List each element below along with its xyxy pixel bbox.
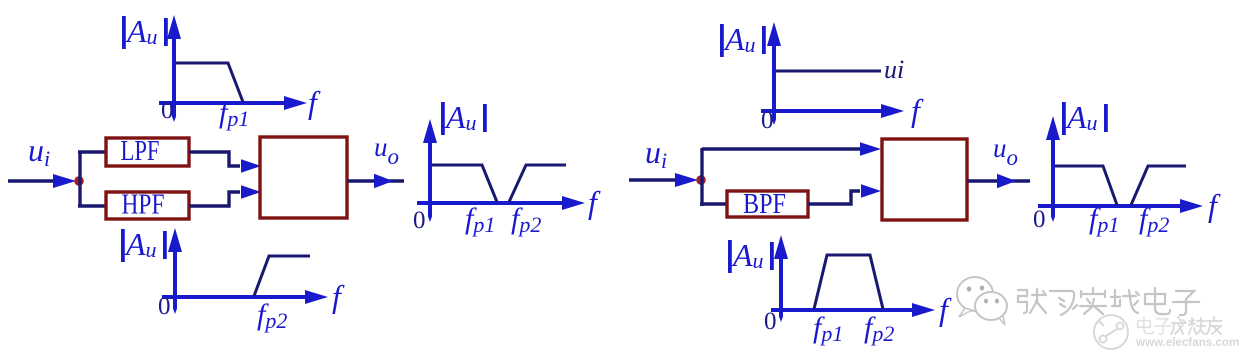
wire BPF to block (808, 191, 860, 204)
svg-text:0: 0 (1033, 206, 1046, 233)
plot1 label fp1 (219, 96, 249, 131)
node junction dot right (696, 175, 706, 185)
arrowhead direct path into block (860, 142, 881, 156)
watermark url www.elecfans.com (1135, 336, 1239, 349)
wire junction to BPF (700, 202, 727, 205)
plot1 LPF response curve (175, 63, 243, 102)
wire input right (629, 178, 680, 181)
filter block HPF (106, 190, 189, 221)
plot6 origin 0 (1033, 206, 1046, 233)
wire junction to LPF (78, 150, 106, 153)
plot3 label fp1 (465, 202, 495, 237)
watermark elecfans logo (1094, 315, 1128, 349)
wire HPF to summing block (189, 192, 240, 206)
plot5 y-axis |Au| (728, 235, 788, 322)
svg-text:0: 0 (413, 207, 426, 234)
summing block left (260, 137, 347, 218)
watermark text dian zi fa shao you (1138, 317, 1222, 334)
label ui input right (645, 134, 667, 173)
svg-text:HPF: HPF (122, 190, 165, 221)
wire direct path to block (702, 147, 860, 150)
plot6 x-axis f (1038, 187, 1221, 223)
plot3 y-axis |Au| (423, 99, 487, 222)
plot5 x-axis f (771, 291, 952, 327)
plot2 origin 0 (158, 293, 171, 320)
plot2 label fp2 (257, 298, 287, 333)
svg-text:0: 0 (158, 293, 171, 320)
plot4 flat response line (776, 70, 881, 73)
plot3 x-axis f (417, 184, 601, 220)
plot5 label fp1 (813, 311, 843, 346)
wire junction to HPF (78, 204, 106, 207)
plot3 label fp2 (511, 202, 541, 237)
wire input left (8, 179, 58, 182)
svg-text:BPF: BPF (743, 189, 786, 220)
svg-text:0: 0 (764, 308, 777, 335)
svg-text:0: 0 (761, 107, 774, 134)
plot2 x-axis f (162, 278, 345, 314)
arrowhead input right (675, 173, 698, 187)
label ui input left (28, 132, 50, 171)
plot3 origin 0 (413, 207, 426, 234)
arrowhead BPF into block (861, 184, 881, 198)
wire junction vertical right (700, 148, 703, 206)
label uo output right (993, 133, 1018, 170)
plot1 x-axis f (159, 84, 321, 120)
plot6 label fp1 (1089, 202, 1119, 237)
plot4 y-axis |Au| (720, 21, 781, 125)
node junction dot left (74, 176, 84, 186)
svg-text:0: 0 (161, 97, 174, 124)
svg-text:LPF: LPF (121, 136, 160, 167)
plot1 y-axis |Au| (122, 13, 181, 122)
plot6 label fp2 (1139, 202, 1169, 237)
plot2 HPF response curve (254, 256, 310, 296)
wire output left (347, 179, 404, 182)
plot4 label ui on line (884, 55, 904, 84)
plot6 y-axis |Au| (1046, 99, 1108, 222)
plot3 band-stop response curve (432, 165, 566, 202)
arrowhead output right (997, 174, 1016, 189)
plot5 bandpass response curve (814, 255, 883, 309)
svg-text:ui: ui (884, 55, 904, 84)
arrowhead input left (53, 174, 76, 188)
filter block LPF (106, 136, 189, 167)
wire output right (967, 179, 1030, 182)
plot6 band-stop response curve (1055, 166, 1186, 205)
plot4 x-axis f (761, 92, 924, 128)
label uo output left (374, 132, 399, 169)
watermark wechat icon (957, 277, 1007, 325)
plot5 label fp2 (864, 311, 894, 346)
wire junction vertical left (78, 151, 81, 207)
plot4 origin 0 (761, 107, 774, 134)
watermark text zhang fei shi zhan dian zi (1018, 288, 1199, 315)
wire LPF to summing block (189, 152, 240, 166)
arrowhead HPF into summing block (241, 185, 261, 199)
arrowhead LPF into summing block (241, 159, 261, 173)
plot5 origin 0 (764, 308, 777, 335)
subtractor block right (882, 139, 967, 220)
arrowhead output left (374, 174, 393, 189)
plot1 origin 0 (161, 97, 174, 124)
filter block BPF (727, 189, 808, 220)
plot2 y-axis |Au| (121, 226, 182, 314)
svg-text:www.elecfans.com: www.elecfans.com (1135, 336, 1239, 349)
